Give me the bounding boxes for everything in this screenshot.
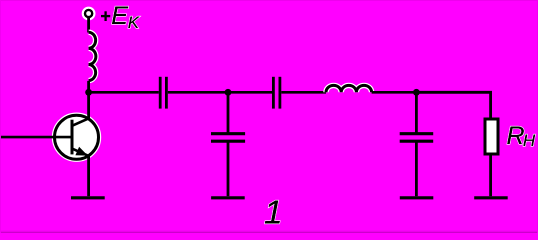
wire node A to C2 xyxy=(228,91,272,94)
wire node B to corner and down to RH xyxy=(416,92,490,118)
node A xyxy=(225,89,232,96)
ground (emitter) xyxy=(71,196,105,199)
wire L1 to collector node xyxy=(87,81,90,92)
transistor Q1 xyxy=(55,115,99,159)
capacitor C1 (series) xyxy=(160,77,166,109)
ground (C3) xyxy=(211,196,245,199)
ground (RH) xyxy=(474,196,508,199)
wire C1 to node A xyxy=(168,91,228,94)
wire L2 to node B xyxy=(372,91,417,94)
inductor L1 (collector choke, 3 right bumps) xyxy=(89,32,96,80)
label 1 xyxy=(264,194,283,231)
node collector junction xyxy=(85,89,92,96)
label +EK xyxy=(101,2,140,32)
resistor RH xyxy=(485,119,498,154)
node B xyxy=(413,89,420,96)
wire C2 to L2 xyxy=(281,91,326,94)
capacitor C2 (series) xyxy=(273,77,280,109)
wire C3 to ground xyxy=(227,141,230,196)
capacitor C3 (shunt) xyxy=(211,134,245,142)
ground (C4) xyxy=(400,196,434,199)
capacitor C4 (shunt) xyxy=(400,134,434,142)
wire C4 to ground xyxy=(415,141,418,196)
wire terminal to L1 xyxy=(87,17,90,32)
inductor L2 (series, 3 top bumps) xyxy=(326,85,372,92)
label RH xyxy=(507,122,536,150)
wire RH to ground xyxy=(489,156,492,197)
wire node A down to C3 xyxy=(227,92,230,133)
wire base (from left edge) xyxy=(1,136,72,139)
wire node to C1 xyxy=(89,91,159,94)
wire node B down to C4 xyxy=(415,92,418,133)
wire emitter xyxy=(87,156,90,196)
svg-text:1: 1 xyxy=(264,194,283,231)
terminal +EK (open circle) xyxy=(84,9,93,18)
wire collector (node to transistor) xyxy=(87,92,90,118)
